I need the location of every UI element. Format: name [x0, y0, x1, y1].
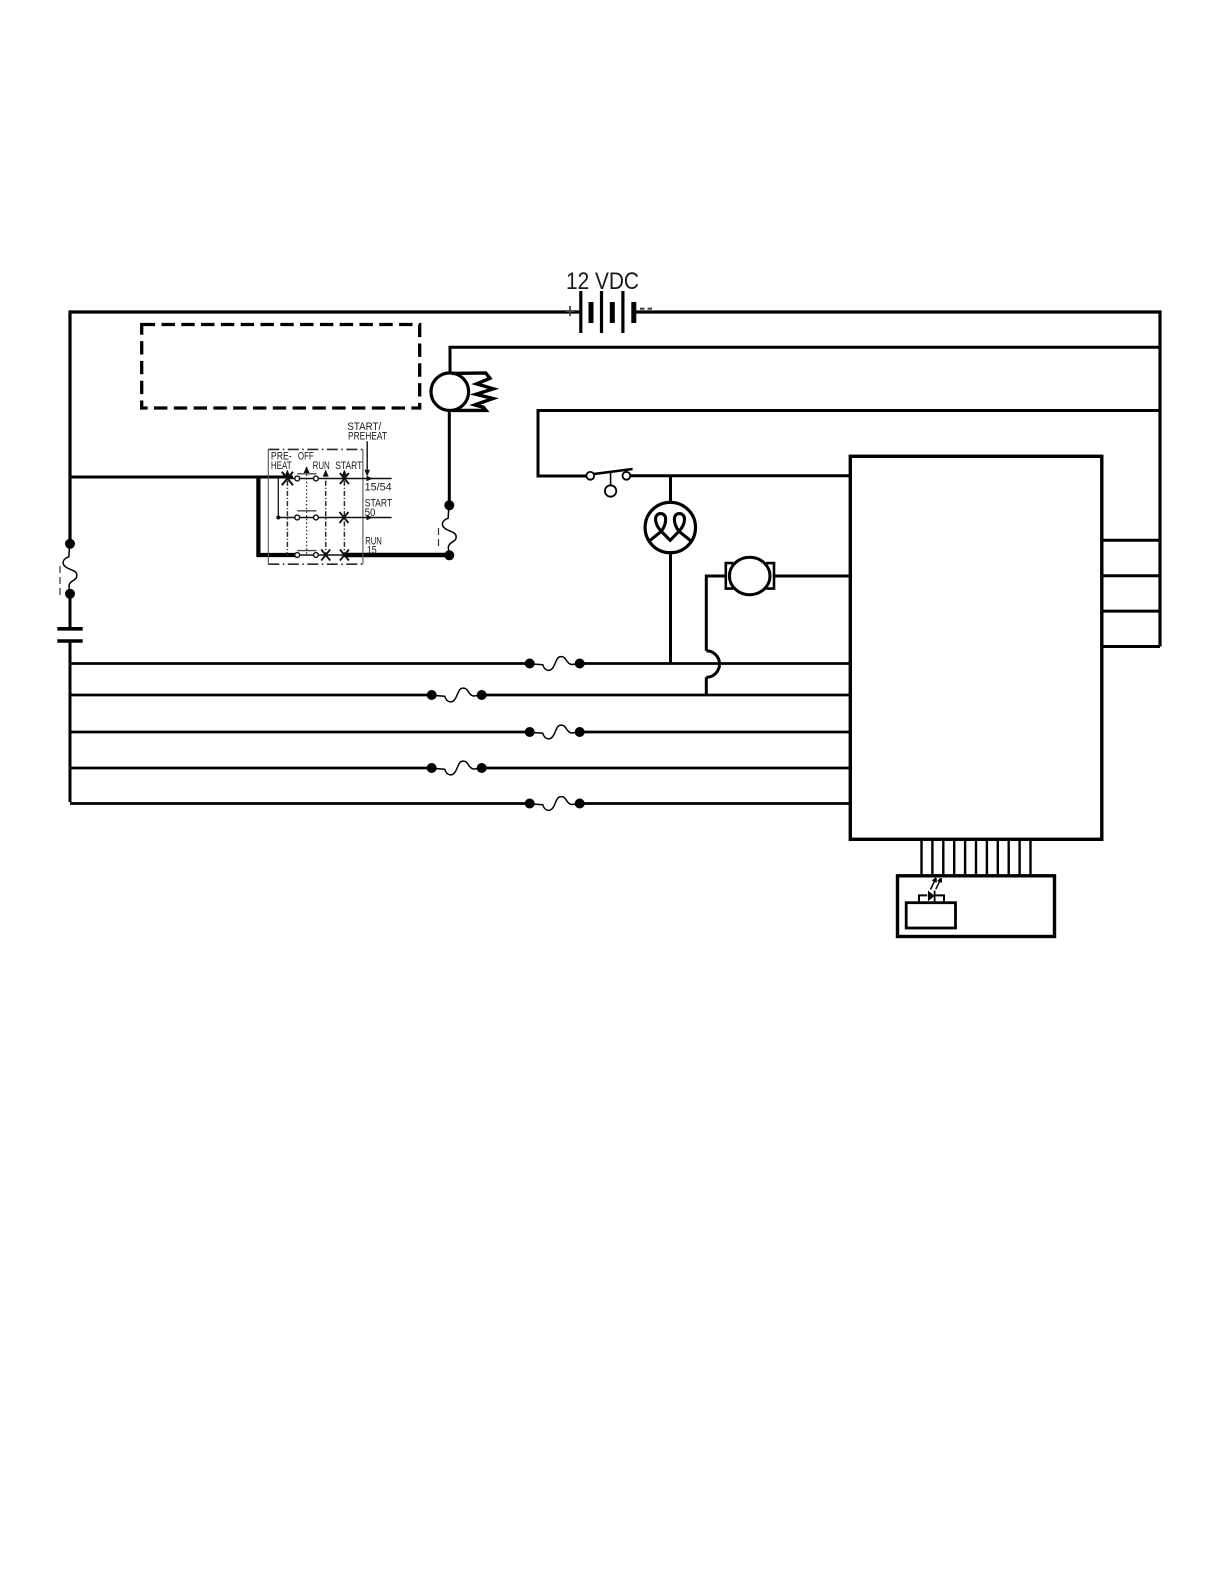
dashed module box: [142, 325, 420, 409]
svg-text:12 VDC: 12 VDC: [566, 268, 639, 295]
callout arrow down: [366, 441, 368, 470]
thick wire bus to ignition switch: [70, 476, 293, 479]
row START50 arrow: [367, 515, 374, 521]
row A wire: [70, 662, 850, 665]
indicator lamp DS1 wire top: [669, 476, 672, 503]
fuse F1 vertical right: [442, 500, 456, 560]
thick branch down (preheat feed): [256, 476, 260, 554]
pull switch S2 wire out to control box: [630, 474, 850, 477]
svg-text:PREHEAT: PREHEAT: [348, 431, 387, 443]
switch row 15/54 wire: [287, 478, 392, 480]
svg-text:15: 15: [367, 545, 377, 557]
position line OFF dotted: [306, 467, 308, 556]
sensor inner block: [906, 903, 955, 928]
movable bar row3: [297, 550, 316, 552]
row B wire: [70, 694, 850, 697]
indicator lamp DS1 filament: [650, 514, 691, 541]
sensor module box: [898, 876, 1055, 937]
fuse F7 on row E: [532, 795, 578, 811]
motor M1 wire right to control box: [774, 575, 850, 578]
wire capacitor to bottom rows: [69, 641, 72, 802]
connector stub 4: [1102, 645, 1160, 648]
left bus vertical wire: [68, 310, 71, 543]
wire glow plug feed y=347: [450, 347, 1160, 373]
fuse F4 on row B: [434, 687, 480, 703]
row RUN15 X marks: [321, 550, 330, 561]
wire fuse to capacitor: [69, 595, 72, 628]
ignition switch S1 border box: [268, 449, 363, 564]
wire hop over row A: [706, 651, 719, 678]
pull switch S2 contacts and lever: [586, 472, 594, 480]
motor M1 right brush: [766, 563, 774, 589]
motor M1 left brush: [726, 563, 734, 589]
fuse F5 on row C: [532, 724, 578, 740]
position line RUN dash-dot: [325, 471, 327, 556]
link wire row1-row2: [277, 479, 279, 518]
row C wire: [70, 731, 850, 734]
battery minus marks: [640, 308, 652, 310]
connector stub 2: [1102, 574, 1160, 577]
glow plug heater element zigzag: [452, 373, 493, 411]
movable bar row2: [297, 510, 316, 512]
LED D1 emission arrows: [931, 878, 937, 890]
wire third rail y=410.5 with drop at 538: [538, 411, 1160, 477]
row E wire: [70, 802, 850, 805]
glow plug heater GP circle: [431, 373, 469, 411]
thick row3 left segment: [256, 553, 295, 557]
switch row START 50 wire: [278, 517, 391, 519]
control box U1: [850, 456, 1102, 839]
indicator lamp DS1 circle: [645, 502, 695, 552]
fuse F3 on row A: [532, 655, 578, 672]
movable bar row1: [297, 473, 316, 475]
wire hop to row B: [705, 677, 708, 695]
ribbon cable wires: [922, 840, 1031, 876]
motor M1 body: [729, 557, 770, 594]
row RUN15 contacts: [295, 553, 300, 558]
svg-text:HEAT: HEAT: [271, 460, 292, 472]
position line START dash-dot: [343, 471, 345, 556]
wire top negative from battery to right corner: [634, 312, 1160, 647]
svg-text:RUN: RUN: [313, 460, 330, 472]
svg-text:15/54: 15/54: [365, 482, 392, 494]
battery plus sign: [565, 306, 575, 316]
fuse F1 dash mark: [438, 528, 440, 546]
fuse F6 on row D: [434, 760, 480, 776]
row START50 X mark: [340, 512, 349, 523]
row 15/54 arrow: [367, 476, 374, 482]
wire glow plug to fuse: [448, 411, 451, 506]
fuse F2 dash mark: [59, 566, 61, 596]
position line PRE-HEAT dash-dot: [286, 471, 288, 556]
connector stub 3: [1102, 610, 1160, 613]
battery B1 12 VDC: [581, 291, 634, 333]
svg-text:50: 50: [365, 507, 376, 519]
LED D1 diode: [928, 891, 935, 902]
connector stub 1: [1102, 539, 1160, 542]
fuse F2 vertical left: [63, 539, 77, 599]
row 15/54 contacts: [295, 476, 300, 481]
capacitor C1: [57, 627, 82, 631]
row START50 contacts: [295, 515, 300, 520]
wire top positive from left bus to battery +: [70, 310, 581, 313]
indicator lamp DS1 wire bottom: [669, 553, 672, 664]
pull switch S2 wire in: [538, 475, 586, 477]
svg-text:START: START: [335, 460, 362, 472]
thick row3 right segment to fuse: [343, 553, 449, 558]
sensor small block: [919, 895, 944, 902]
switch row RUN 15 wire thin middle: [293, 554, 345, 556]
svg-text:OFF: OFF: [298, 451, 314, 463]
motor M1 wire left with corner: [706, 576, 725, 651]
row 15/54 X marks: [282, 472, 293, 485]
row D wire: [70, 767, 850, 770]
